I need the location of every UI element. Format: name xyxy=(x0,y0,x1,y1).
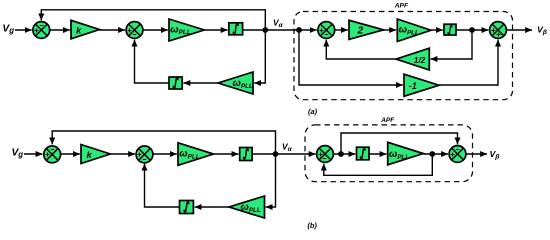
svg-text:(a): (a) xyxy=(308,107,318,116)
svg-text:k: k xyxy=(87,150,93,161)
svg-text:Vβ: Vβ xyxy=(537,25,547,37)
svg-text:Vβ: Vβ xyxy=(490,149,500,161)
svg-text:Vα: Vα xyxy=(273,17,284,29)
svg-text:Vg: Vg xyxy=(2,23,14,35)
svg-text:2: 2 xyxy=(357,26,364,37)
svg-text:APF: APF xyxy=(380,117,395,124)
svg-text:Vg: Vg xyxy=(12,147,24,159)
svg-text:1/2: 1/2 xyxy=(414,56,426,65)
svg-text:-1: -1 xyxy=(409,81,417,91)
svg-text:k: k xyxy=(76,25,82,36)
svg-text:APF: APF xyxy=(394,2,409,9)
svg-text:Vα: Vα xyxy=(282,141,293,153)
svg-text:(b): (b) xyxy=(307,221,317,230)
